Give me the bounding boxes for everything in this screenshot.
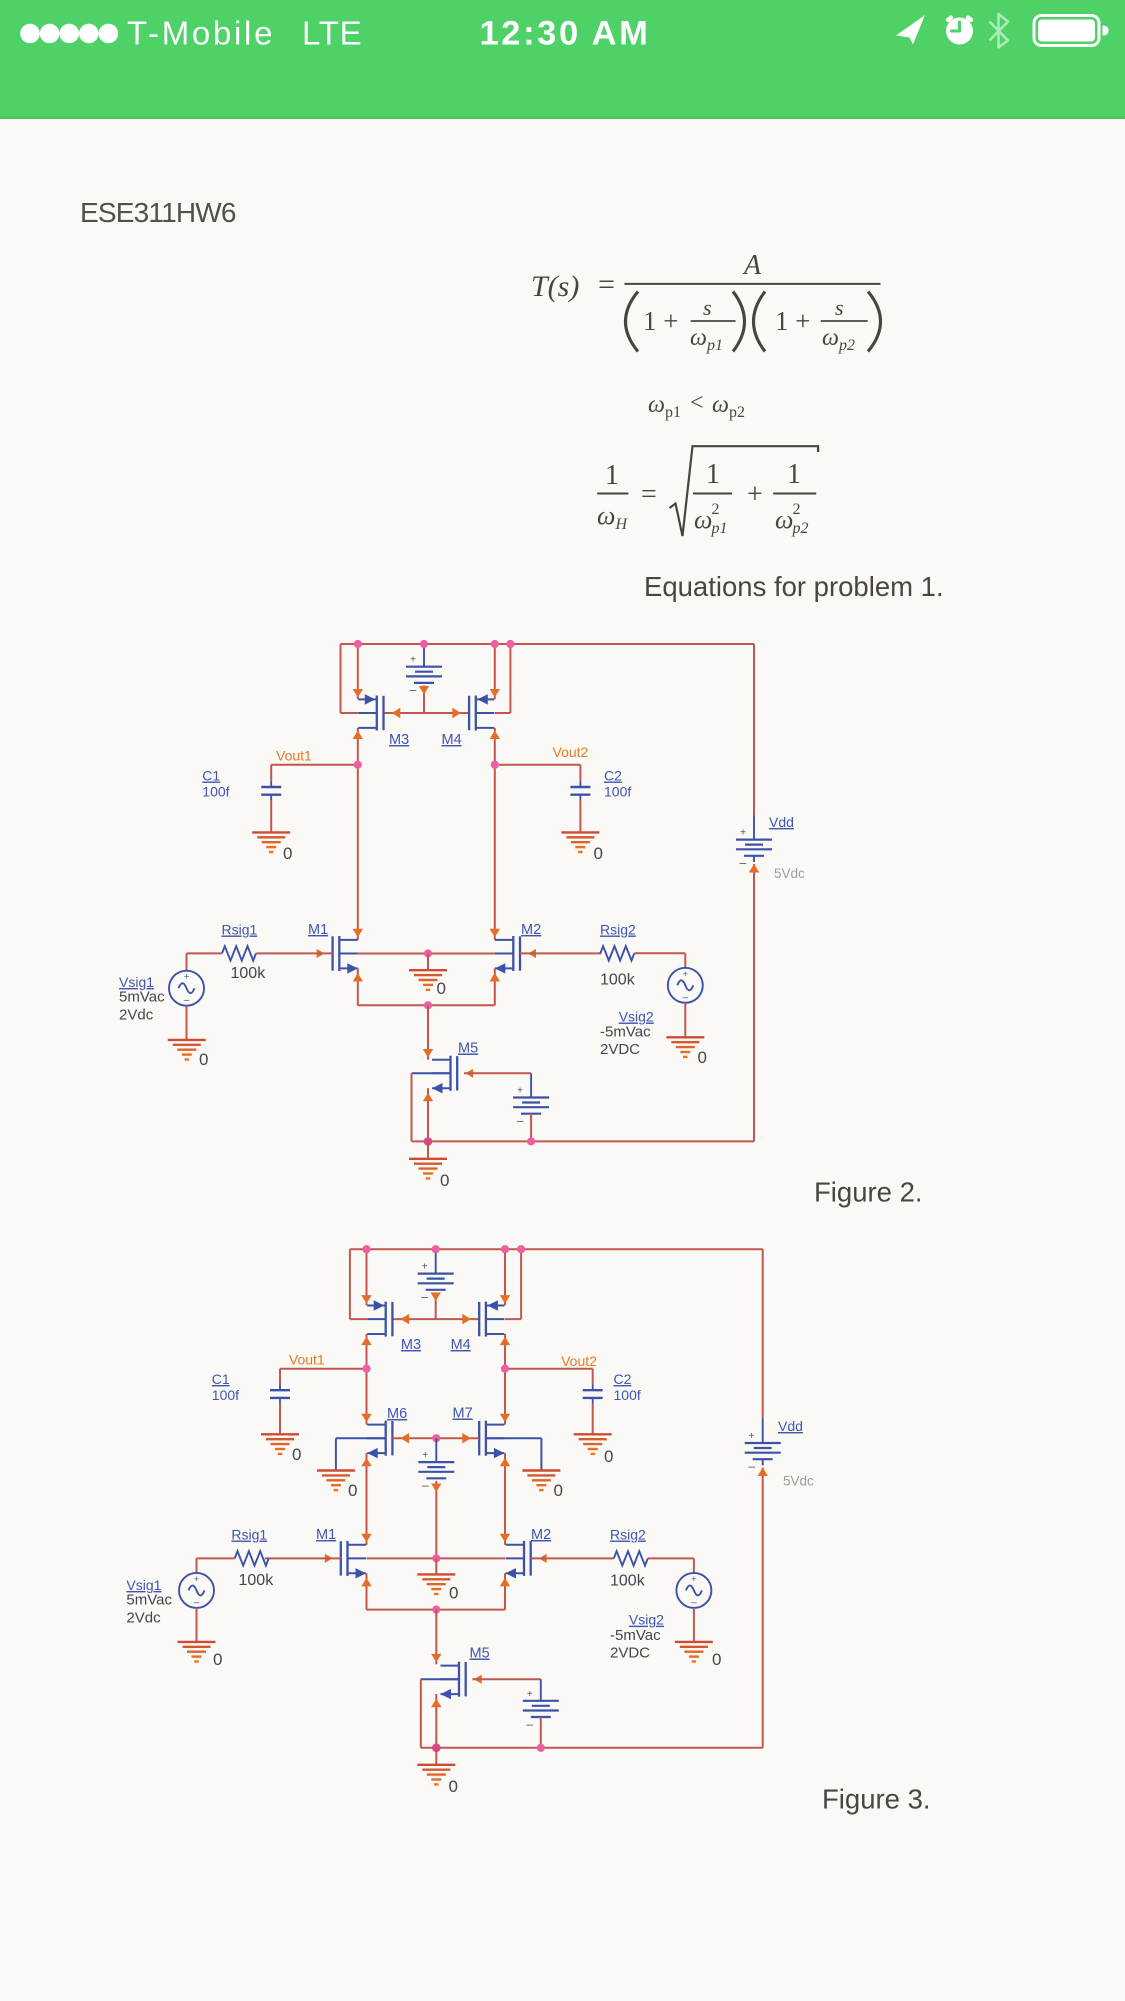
svg-text:–: – [683, 992, 689, 1003]
svg-text:Vout2: Vout2 [553, 744, 589, 760]
svg-text:C2: C2 [604, 768, 622, 784]
svg-text:p2: p2 [838, 337, 855, 354]
svg-text:2Vdc: 2Vdc [119, 1006, 154, 1023]
svg-text:=: = [641, 479, 657, 510]
svg-text:0: 0 [437, 979, 446, 998]
svg-text:ω: ω [597, 501, 615, 530]
svg-text:s: s [835, 295, 844, 320]
svg-text:–: – [421, 1290, 428, 1304]
svg-text:0: 0 [449, 1584, 458, 1603]
svg-text:2Vdc: 2Vdc [126, 1609, 161, 1626]
svg-text:M1: M1 [308, 922, 328, 938]
svg-text:+: + [410, 655, 416, 666]
svg-text:Vsig2: Vsig2 [619, 1009, 654, 1025]
svg-text:ω: ω [648, 392, 665, 418]
svg-text:M3: M3 [389, 732, 409, 748]
svg-text:1: 1 [706, 459, 720, 490]
svg-text:T(s): T(s) [531, 270, 579, 303]
svg-text:100f: 100f [604, 784, 631, 800]
svg-text:0: 0 [698, 1048, 707, 1067]
svg-text:H: H [615, 516, 629, 533]
svg-text:0: 0 [712, 1650, 721, 1669]
svg-text:0: 0 [213, 1650, 222, 1669]
svg-text:A: A [742, 250, 762, 281]
svg-text:0: 0 [199, 1050, 208, 1069]
svg-text:Vdd: Vdd [769, 814, 794, 830]
svg-text:Vout2: Vout2 [561, 1353, 597, 1369]
svg-text:100k: 100k [600, 972, 636, 989]
svg-text:1 +: 1 + [775, 306, 810, 336]
svg-text:2VDC: 2VDC [610, 1644, 650, 1661]
svg-text:100k: 100k [610, 1573, 646, 1590]
svg-text:–: – [422, 1478, 429, 1492]
svg-text:100f: 100f [202, 784, 229, 800]
svg-text:M4: M4 [451, 1337, 471, 1353]
svg-text:Rsig1: Rsig1 [231, 1527, 267, 1543]
svg-text:C2: C2 [614, 1371, 632, 1387]
svg-text:p1: p1 [711, 520, 728, 537]
svg-text:p2: p2 [792, 520, 809, 537]
svg-text:0: 0 [449, 1777, 458, 1796]
svg-text:ESE311HW6: ESE311HW6 [80, 197, 236, 228]
svg-text:Vsig1: Vsig1 [119, 974, 154, 990]
svg-text:–: – [194, 1597, 200, 1608]
svg-text:M2: M2 [521, 922, 541, 938]
svg-text:M7: M7 [453, 1406, 473, 1422]
svg-text:+: + [184, 972, 189, 982]
svg-text:Rsig2: Rsig2 [600, 922, 636, 938]
svg-text:-5mVac: -5mVac [600, 1024, 651, 1041]
svg-text:0: 0 [594, 844, 603, 863]
svg-text:Figure 2.: Figure 2. [814, 1177, 923, 1208]
svg-text:p1: p1 [706, 337, 723, 354]
svg-text:Rsig1: Rsig1 [222, 922, 258, 938]
svg-text:–: – [184, 995, 190, 1006]
svg-text:–: – [691, 1597, 697, 1608]
svg-text:Vout1: Vout1 [289, 1352, 325, 1368]
svg-text:ω: ω [712, 392, 729, 418]
svg-text:M1: M1 [316, 1527, 336, 1543]
svg-text:–: – [410, 683, 417, 697]
svg-text:0: 0 [348, 1481, 357, 1500]
svg-text:0: 0 [554, 1481, 563, 1500]
svg-text:+: + [527, 1689, 533, 1700]
svg-text:2VDC: 2VDC [600, 1041, 640, 1058]
svg-text:100k: 100k [231, 965, 267, 982]
svg-text:+: + [194, 1574, 199, 1584]
svg-text:100f: 100f [614, 1387, 641, 1403]
svg-text:+: + [740, 828, 746, 839]
svg-text:5mVac: 5mVac [119, 989, 165, 1006]
svg-text:Equations for problem 1.: Equations for problem 1. [644, 571, 944, 602]
svg-text:–: – [517, 1114, 524, 1128]
svg-text:M6: M6 [387, 1406, 407, 1422]
svg-text:2: 2 [712, 501, 720, 518]
svg-text:5mVac: 5mVac [126, 1592, 172, 1609]
svg-text:s: s [703, 295, 712, 320]
svg-text:M5: M5 [458, 1041, 478, 1057]
svg-text:M3: M3 [401, 1337, 421, 1353]
svg-text:5Vdc: 5Vdc [774, 866, 805, 881]
svg-text:1: 1 [605, 460, 619, 491]
svg-text:M5: M5 [470, 1646, 490, 1662]
svg-text:–: – [748, 1459, 755, 1473]
svg-text:100k: 100k [239, 1572, 275, 1589]
svg-text:0: 0 [283, 844, 292, 863]
svg-text:Vsig2: Vsig2 [629, 1612, 664, 1628]
svg-text:5Vdc: 5Vdc [783, 1474, 814, 1489]
svg-text:Figure 3.: Figure 3. [822, 1784, 931, 1815]
svg-text:ω: ω [690, 325, 707, 351]
svg-text:100f: 100f [212, 1387, 239, 1403]
svg-text:1 +: 1 + [643, 306, 678, 336]
svg-text:=: = [598, 268, 615, 301]
svg-text:ω: ω [775, 505, 793, 534]
svg-text:+: + [517, 1086, 523, 1097]
svg-text:+: + [749, 1431, 755, 1442]
svg-text:+: + [422, 1450, 428, 1461]
svg-text:+: + [747, 479, 763, 510]
svg-text:–: – [526, 1717, 533, 1731]
svg-text:C1: C1 [212, 1371, 230, 1387]
svg-text:Rsig2: Rsig2 [610, 1527, 646, 1543]
svg-text:+: + [422, 1262, 428, 1273]
svg-text:0: 0 [292, 1445, 301, 1464]
svg-text:M2: M2 [531, 1527, 551, 1543]
svg-text:ω: ω [822, 325, 839, 351]
svg-text:0: 0 [604, 1447, 613, 1466]
svg-text:–: – [740, 856, 747, 870]
svg-text:C1: C1 [202, 768, 220, 784]
svg-text:1: 1 [787, 459, 801, 490]
svg-text:M4: M4 [442, 732, 462, 748]
svg-text:2: 2 [793, 501, 801, 518]
svg-text:p2: p2 [729, 404, 745, 421]
svg-text:ω: ω [694, 505, 712, 534]
svg-text:<: < [690, 390, 704, 416]
svg-text:0: 0 [440, 1171, 449, 1190]
svg-text:p1: p1 [665, 404, 681, 421]
svg-text:Vout1: Vout1 [276, 748, 312, 764]
svg-text:-5mVac: -5mVac [610, 1627, 661, 1644]
svg-text:Vsig1: Vsig1 [126, 1577, 161, 1593]
svg-text:+: + [691, 1574, 696, 1584]
svg-text:Vdd: Vdd [778, 1418, 803, 1434]
svg-text:+: + [683, 969, 688, 979]
